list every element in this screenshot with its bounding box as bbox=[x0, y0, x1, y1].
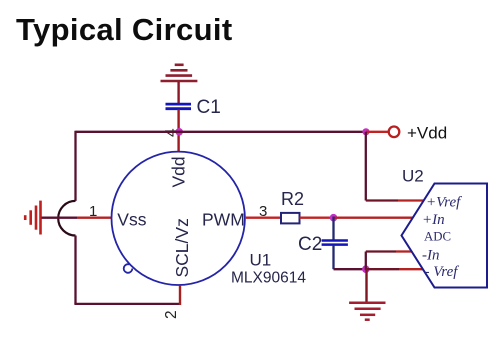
svg-text:Typical Circuit: Typical Circuit bbox=[16, 12, 233, 47]
svg-text:+Vdd: +Vdd bbox=[407, 124, 447, 143]
wire: node B to -In bbox=[366, 252, 412, 271]
junction at Vdd rail bbox=[175, 128, 183, 136]
wire: stub to +Vdd terminal bbox=[366, 131, 389, 133]
wire: C2 to node B bbox=[334, 268, 366, 270]
svg-text:+In: +In bbox=[422, 212, 445, 228]
wire: node A to +In bbox=[334, 217, 413, 219]
IC U1 circle bbox=[112, 152, 245, 285]
svg-text:Vss: Vss bbox=[117, 210, 146, 230]
wire: left vertical with hop bbox=[58, 131, 75, 304]
bubble on U1 bbox=[124, 264, 133, 273]
wire: +Vdd rail to +Vref bbox=[366, 132, 424, 201]
resistor R2 bbox=[281, 213, 300, 224]
wire: R2 to node A bbox=[300, 217, 334, 219]
svg-text:PWM: PWM bbox=[202, 210, 245, 230]
wire: pin 1 bbox=[42, 217, 112, 219]
wire: +Vdd rail horizontal bbox=[76, 131, 367, 133]
svg-text:ADC: ADC bbox=[424, 230, 451, 244]
svg-text:-In: -In bbox=[422, 248, 440, 264]
ground (bottom right) bbox=[349, 303, 385, 320]
wire: node B to ground bbox=[365, 269, 367, 301]
svg-text:2: 2 bbox=[163, 310, 180, 319]
wire: pin 3 to R2 bbox=[245, 217, 281, 219]
svg-text:U1: U1 bbox=[250, 251, 272, 270]
svg-text:1: 1 bbox=[89, 203, 97, 220]
svg-text:- Vref: - Vref bbox=[425, 264, 460, 280]
wire: top ground to C1 bbox=[177, 82, 179, 103]
svg-text:R2: R2 bbox=[281, 189, 304, 209]
capacitor C2 bbox=[322, 217, 348, 270]
junction node B bbox=[362, 265, 370, 273]
ADC U2 body bbox=[402, 184, 488, 288]
wire: node B to -Vref bbox=[366, 268, 423, 270]
svg-text:C1: C1 bbox=[197, 97, 221, 118]
terminal +Vdd (open circle) bbox=[389, 127, 400, 138]
junction node A bbox=[330, 214, 338, 222]
junction at +Vdd terminal bbox=[362, 128, 369, 135]
wire: pin 2 stub bbox=[179, 285, 181, 305]
svg-text:+Vref: +Vref bbox=[426, 195, 462, 211]
wire: bottom horizontal bbox=[74, 303, 180, 305]
ground (left, signal) bbox=[25, 201, 40, 235]
wire: C1 to U1 pin 4 bbox=[177, 110, 179, 152]
power ground (top) bbox=[161, 65, 198, 81]
capacitor C1 bbox=[166, 104, 192, 109]
svg-text:MLX90614: MLX90614 bbox=[231, 270, 306, 287]
svg-text:C2: C2 bbox=[298, 234, 322, 255]
svg-text:SCL/Vz: SCL/Vz bbox=[172, 218, 192, 277]
svg-text:U2: U2 bbox=[402, 167, 424, 186]
svg-text:Vdd: Vdd bbox=[169, 156, 189, 187]
svg-text:3: 3 bbox=[259, 203, 267, 220]
